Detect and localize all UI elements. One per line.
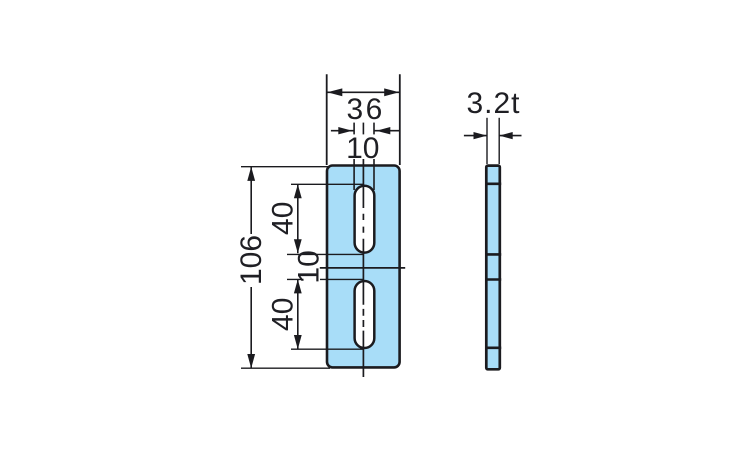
- extension line 36 right: [399, 74, 401, 165]
- svg-text:3.2t: 3.2t: [466, 87, 520, 120]
- dimension line 36: [327, 91, 400, 93]
- dimension line 10 top right arrow: [374, 130, 400, 132]
- extension line slot width left upper: [353, 123, 355, 135]
- label 106: [235, 235, 268, 285]
- dimension line 106 lower segment: [250, 287, 252, 368]
- extension line thickness left: [486, 118, 488, 164]
- arrowhead 3.2t left: [474, 132, 488, 139]
- extension line slot2 top right part: [320, 278, 363, 280]
- vertical centerline through slots: [362, 159, 364, 377]
- arrowhead 106 up: [247, 167, 255, 181]
- extension line slot1 bottom: [287, 253, 363, 255]
- extension line 106 bottom: [241, 367, 330, 369]
- plate front view body: [327, 166, 400, 368]
- extension line slot2 bottom: [291, 348, 363, 350]
- arrowhead 10 top right: [376, 127, 390, 134]
- extension line thickness right: [498, 118, 500, 164]
- svg-text:10: 10: [346, 132, 379, 165]
- label 40 bottom: [266, 298, 299, 331]
- arrowhead 40 bottom down: [294, 335, 302, 349]
- extension line slot width right upper: [373, 123, 375, 135]
- svg-text:40: 40: [266, 202, 299, 235]
- svg-text:106: 106: [235, 235, 268, 285]
- extension line 36 left: [326, 74, 328, 165]
- arrowhead 3.2t right: [499, 132, 513, 139]
- extension line slot width left lower: [353, 159, 355, 190]
- dimension line 40 top: [297, 184, 299, 253]
- extension line slot2 top left part: [287, 278, 304, 280]
- arrowhead 40 bottom up: [294, 279, 302, 293]
- dimension line 3.2t left arrow: [464, 135, 487, 137]
- arrowhead 40 top down: [294, 239, 302, 253]
- side view tick slot1 top: [485, 183, 501, 186]
- side view tick slot1 bottom: [485, 253, 501, 256]
- svg-text:10: 10: [293, 250, 326, 283]
- dimension line 40 bottom: [297, 279, 299, 349]
- side view tick slot2 bottom: [485, 346, 501, 349]
- dimension line 106 upper segment: [250, 167, 252, 234]
- dimension line 3.2t right arrow: [499, 135, 521, 137]
- svg-text:40: 40: [266, 298, 299, 331]
- slot hole lower: [355, 281, 375, 348]
- arrowhead 40 top up: [294, 184, 302, 198]
- arrowhead 36 left: [327, 88, 342, 96]
- extension line 106 top: [241, 166, 328, 168]
- arrowhead 106 down: [247, 354, 255, 368]
- arrowhead 36 right: [384, 88, 399, 96]
- plate side view body: [486, 166, 500, 370]
- side view tick slot2 top: [485, 278, 501, 281]
- label 10 middle: [293, 250, 326, 283]
- horizontal centerline of plate: [320, 267, 405, 269]
- dimension line 10 top left arrow: [331, 130, 354, 132]
- extension line slot width right lower: [373, 159, 375, 190]
- label 40 top: [266, 202, 299, 235]
- svg-text:36: 36: [347, 93, 385, 126]
- extension line slot1 top: [291, 183, 363, 185]
- vertical centerline top tick: [362, 123, 364, 135]
- slot hole upper: [355, 186, 375, 253]
- arrowhead 10 top left: [338, 127, 352, 134]
